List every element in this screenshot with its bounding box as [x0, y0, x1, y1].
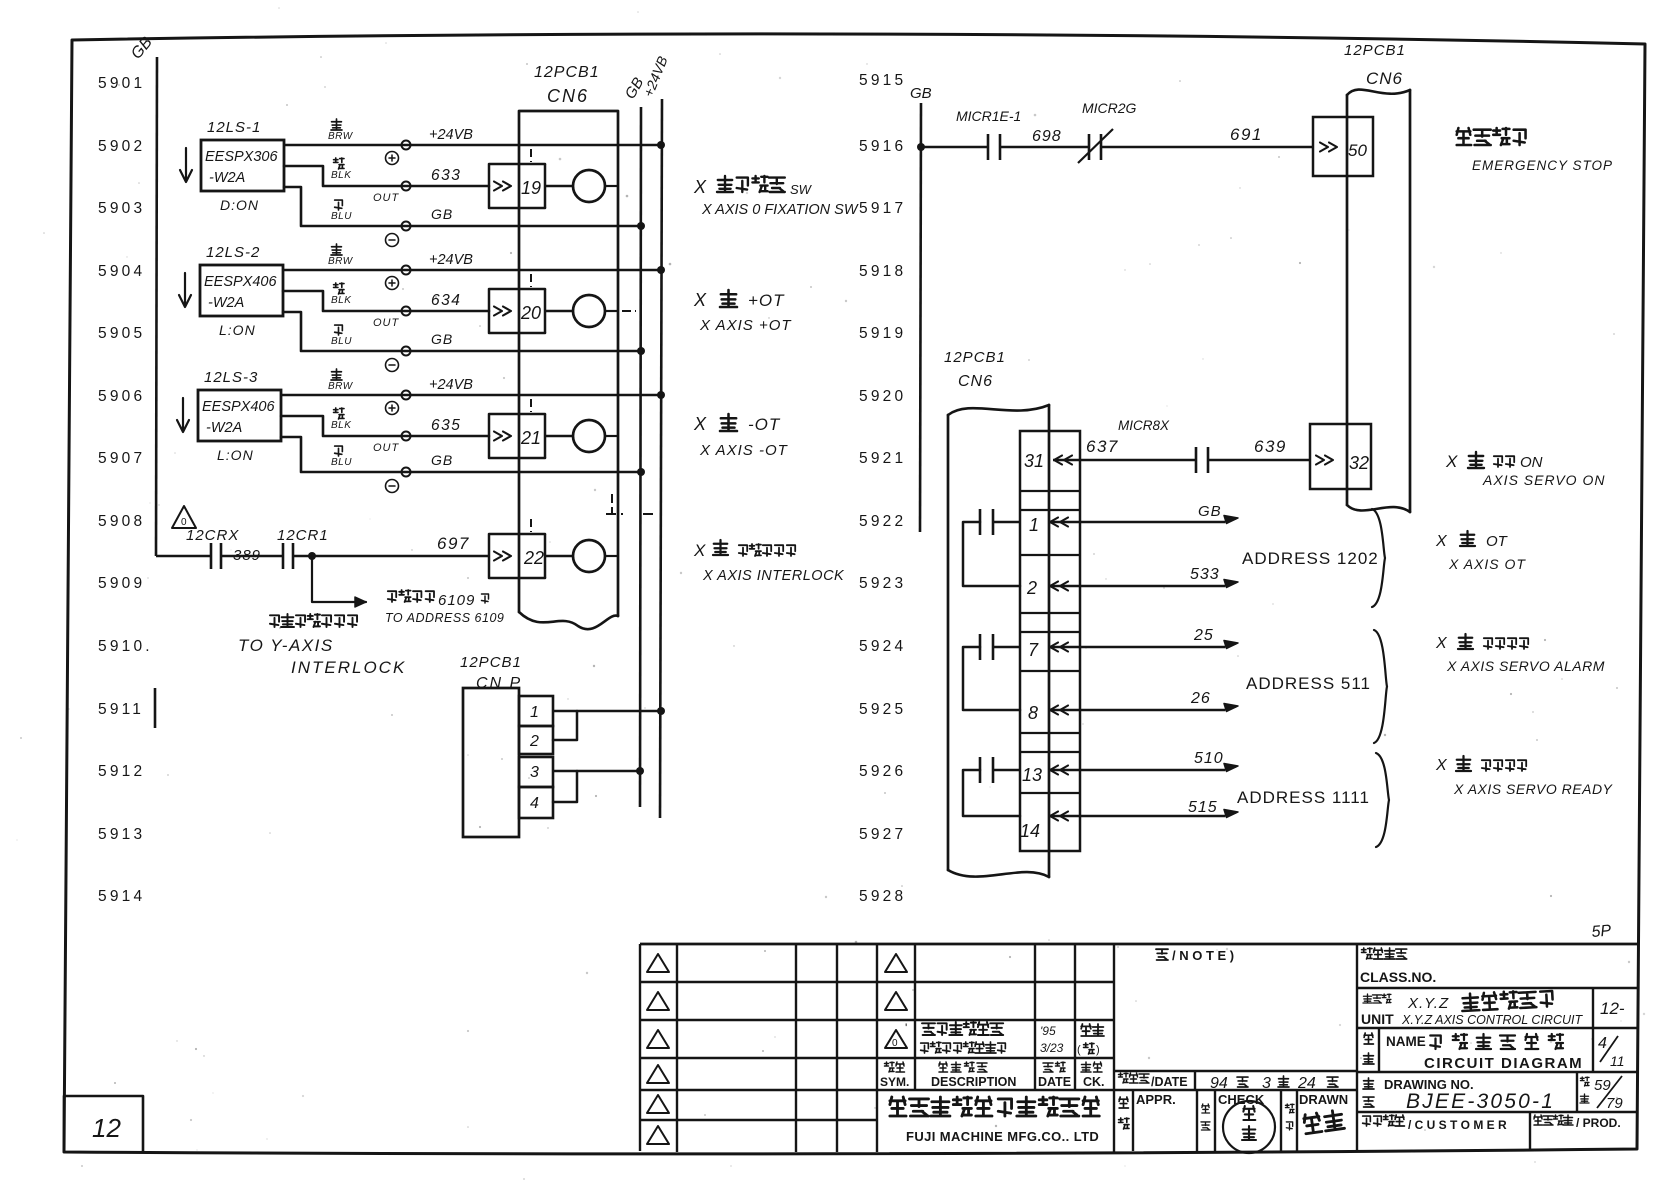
terminal circle [402, 391, 411, 400]
break squiggle bottom [948, 870, 1049, 877]
svg-text:1: 1 [1029, 515, 1039, 535]
svg-text:5911: 5911 [98, 701, 144, 718]
brace ADDRESS 1111 [1376, 753, 1389, 847]
svg-text:698: 698 [1032, 128, 1062, 145]
svg-text:3: 3 [1262, 1075, 1271, 1092]
svg-text:X AXIS 0 FIXATION SW: X AXIS 0 FIXATION SW [701, 202, 859, 218]
svg-text:5909: 5909 [98, 575, 145, 592]
svg-text:5916: 5916 [859, 138, 906, 155]
polarity mark plus [386, 277, 399, 290]
header DESCRIPTION [939, 1062, 948, 1072]
svg-text:5903: 5903 [98, 200, 145, 217]
svg-text:BJEE-3050-1: BJEE-3050-1 [1406, 1090, 1555, 1113]
svg-text:TO ADDRESS 6109: TO ADDRESS 6109 [385, 611, 504, 625]
junction dot on +24VB bus [657, 391, 665, 399]
svg-text:5908: 5908 [98, 513, 145, 530]
svg-text:X AXIS OT: X AXIS OT [1448, 556, 1526, 572]
svg-text:FUJI MACHINE MFG.CO.. LTD: FUJI MACHINE MFG.CO.. LTD [906, 1129, 1099, 1144]
right GB vertical bus wire [920, 103, 921, 532]
svg-text:CN P: CN P [476, 675, 522, 692]
wire 5916 from GB bus to contact MICR1E-1 [921, 146, 988, 149]
svg-text:12LS-3: 12LS-3 [204, 369, 258, 386]
left vertical bus wire (rows 5901-5908) [156, 57, 157, 556]
svg-text:13: 13 [1022, 765, 1042, 785]
svg-text:GB: GB [1198, 503, 1222, 520]
pin 22 box right edge [544, 534, 547, 578]
wire jog to next pin [963, 770, 1020, 816]
pin 3 of CNP [519, 757, 553, 787]
pin 22 bracket [489, 534, 545, 578]
wire pin 19 to lamp [545, 185, 573, 188]
svg-text:GB: GB [431, 452, 453, 468]
svg-text:32: 32 [1349, 453, 1369, 473]
wire 691 to pin 50 [1101, 146, 1313, 149]
svg-text:4: 4 [530, 795, 539, 812]
dash mark above pin [530, 149, 532, 162]
signal arrow into pin 50 [1320, 143, 1328, 152]
revision triangle [647, 1030, 669, 1048]
svg-text:5921: 5921 [859, 450, 906, 467]
svg-text:/ N O T E ): / N O T E ) [1172, 948, 1234, 963]
svg-text:'95: '95 [1040, 1024, 1056, 1038]
svg-text:12PCB1: 12PCB1 [460, 654, 522, 671]
svg-text:BLU: BLU [331, 336, 352, 347]
actuation arrow for 12LS-2 [179, 273, 191, 307]
wire 639 to pin 32 [1208, 459, 1310, 462]
svg-text:DESCRIPTION: DESCRIPTION [931, 1075, 1016, 1089]
check stamp circle Yamamoto [1223, 1101, 1275, 1153]
pin 32 box [1310, 424, 1371, 489]
revision triangle [647, 1095, 669, 1113]
connector 12PCB1 CN6 (right) body [1346, 95, 1349, 505]
svg-text:635: 635 [431, 417, 461, 434]
wire color label BRW (brown kanji) [331, 119, 342, 130]
dash after lamp [605, 310, 617, 312]
svg-text:5912: 5912 [98, 763, 145, 780]
limit switch 12LS-1 body EESPX306-W2A [201, 140, 284, 191]
wire contact to pin [993, 521, 1020, 524]
svg-text:X AXIS -OT: X AXIS -OT [699, 442, 789, 459]
indicator lamp at pin 21 [573, 420, 605, 452]
svg-text:634: 634 [431, 292, 461, 309]
wire GB from CN6 pin [1050, 518, 1058, 527]
polarity mark minus [386, 480, 399, 493]
svg-text:31: 31 [1024, 451, 1044, 471]
note emergency stop (kanji) [1457, 128, 1471, 145]
GB vertical bus wire [640, 107, 641, 807]
wire OUT 633 from 12LS-1 (BLK) [284, 166, 489, 186]
wire +24VB from 12LS-1 (BRW) [284, 144, 661, 147]
signal arrow into pin 32 [1316, 456, 1324, 465]
revision table B columns [876, 944, 878, 1152]
svg-text:BLU: BLU [331, 211, 352, 222]
revision triangle (table B) [885, 954, 907, 972]
revision triangle 0' entry [885, 1030, 907, 1048]
break squiggle top [948, 405, 1049, 415]
revision triangle [647, 1126, 669, 1144]
production number row [1534, 1115, 1543, 1125]
svg-text:X: X [1445, 452, 1458, 471]
svg-text:SW: SW [790, 182, 813, 197]
svg-text:/DATE: /DATE [1151, 1075, 1188, 1089]
dash after lamp [605, 185, 617, 187]
svg-text:/ PROD.: / PROD. [1576, 1116, 1621, 1130]
wire GB from 12LS-1 (BLU) [284, 187, 641, 226]
signal arrow into pin 19 [494, 182, 502, 191]
svg-text:+24VB: +24VB [429, 127, 473, 143]
revision triangle (table B) [885, 992, 907, 1010]
wire +24VB from 12LS-3 (BRW) [281, 394, 661, 397]
pin 50 box [1313, 117, 1373, 176]
svg-text:5920: 5920 [859, 388, 906, 405]
wire 697 to pin 22 [293, 555, 489, 558]
sheet column [1576, 1072, 1578, 1112]
svg-text:691: 691 [1230, 125, 1263, 144]
company name Fuji Machine (kanji) [890, 1097, 906, 1116]
svg-text:X: X [1435, 533, 1448, 550]
capacitor-style contact on CN6 pin [979, 634, 982, 660]
wire 510 from CN6 pin [1050, 766, 1058, 775]
signal arrow into pin 22 [494, 552, 502, 561]
svg-text:+OT: +OT [748, 291, 785, 310]
pin 21 bracket [489, 414, 545, 458]
revision table A [639, 944, 641, 1151]
connector body break squiggle bottom [519, 612, 618, 629]
connector 12PCB1 CN6 (left) body [519, 111, 618, 616]
terminal circle [402, 222, 411, 231]
pin 19 bracket [489, 164, 545, 208]
svg-text:BRW: BRW [328, 256, 354, 267]
signal arrow into pin 21 [494, 432, 502, 441]
svg-text:12LS-1: 12LS-1 [207, 119, 261, 136]
name column (kanji) [1364, 1033, 1373, 1044]
wire 26 from CN6 pin [1050, 706, 1058, 715]
svg-text:5925: 5925 [859, 701, 906, 718]
svg-text:X: X [1435, 757, 1448, 774]
junction dot row 5916 [917, 143, 925, 151]
svg-text:11: 11 [1610, 1053, 1625, 1069]
class code 12- [1592, 988, 1594, 1028]
revision triangle [647, 992, 669, 1010]
wire 533 from CN6 pin [1050, 582, 1058, 591]
svg-text:OUT: OUT [373, 192, 400, 204]
svg-text:0: 0 [892, 1038, 898, 1049]
svg-text:20: 20 [520, 303, 541, 323]
wire color label BLK (black kanji) [334, 408, 344, 419]
dash mark above pin [530, 399, 532, 412]
indicator lamp at pin 19 [573, 170, 605, 202]
wire CNP pin4 jog [553, 771, 577, 802]
signal arrows into pin 31 [1054, 456, 1062, 465]
terminal circle [402, 182, 411, 191]
svg-text:639: 639 [1254, 437, 1287, 456]
revision triangle [647, 1065, 669, 1083]
junction dot on +24VB bus [657, 141, 665, 149]
wire CNP pin2 jog [553, 711, 577, 740]
header DATE [1043, 1063, 1053, 1072]
wire 515 from CN6 pin [1050, 812, 1058, 821]
wire GB from 12LS-2 (BLU) [283, 312, 641, 351]
wire color label BRW (brown kanji) [331, 244, 342, 255]
svg-text:12: 12 [92, 1113, 121, 1143]
svg-text:EESPX406: EESPX406 [202, 399, 275, 415]
svg-text:8: 8 [1028, 703, 1038, 723]
pin strip of CN6 (lower) [1020, 431, 1080, 851]
svg-text:2: 2 [529, 733, 539, 750]
dash-dot right of lamp 20 [622, 310, 636, 312]
actuation arrow for 12LS-3 [177, 398, 189, 432]
wire contact to pin [993, 646, 1020, 649]
header CK [1081, 1062, 1091, 1072]
indicator lamp at pin 20 [573, 295, 605, 327]
wire 698 [1000, 146, 1089, 149]
svg-text:5904: 5904 [98, 263, 145, 280]
wire CNP pin1 to +24VB bus [553, 710, 661, 713]
pin 20 bracket [489, 289, 545, 333]
break squiggle bottom [1347, 505, 1410, 512]
wire color label BLK (black kanji) [334, 283, 344, 294]
svg-text:/ C U S T O M E R: / C U S T O M E R [1408, 1118, 1507, 1132]
connector 12PCB1 CNP body [463, 688, 519, 837]
pin 4 of CNP [519, 787, 553, 818]
drawing number column (kanji) [1363, 1078, 1374, 1089]
svg-text:-W2A: -W2A [208, 295, 244, 311]
svg-text:ON: ON [1520, 454, 1543, 471]
wire pin 20 to lamp [545, 310, 573, 313]
svg-text:X AXIS INTERLOCK: X AXIS INTERLOCK [702, 568, 845, 584]
svg-text:5923: 5923 [859, 575, 906, 592]
svg-text:X: X [693, 177, 707, 197]
svg-text:5917: 5917 [859, 200, 906, 217]
terminal circle [402, 432, 411, 441]
svg-text:5926: 5926 [859, 763, 906, 780]
drawn by Esaka (handwritten kanji) [1303, 1110, 1344, 1134]
svg-text:14: 14 [1020, 821, 1040, 841]
page number 4/11 [1592, 1028, 1594, 1072]
svg-text:5924: 5924 [859, 638, 906, 655]
wire 25 from CN6 pin [1050, 643, 1058, 652]
svg-text:5905: 5905 [98, 325, 145, 342]
svg-text:5901: 5901 [98, 75, 145, 92]
svg-text:5928: 5928 [859, 888, 906, 905]
wire pin 21 to lamp [545, 435, 573, 438]
wire color label BRW (brown kanji) [331, 369, 342, 380]
svg-text:(: ( [1077, 1044, 1081, 1056]
terminal circle [402, 468, 411, 477]
svg-text:-W2A: -W2A [209, 170, 245, 186]
dash after lamp [605, 555, 617, 557]
break squiggle top [1347, 90, 1410, 95]
svg-text:5910.: 5910. [98, 638, 153, 655]
wire color label BLU (blue kanji) [335, 446, 343, 456]
limit switch 12LS-2 body EESPX406-W2A [200, 265, 283, 316]
svg-text:CHECK: CHECK [1218, 1092, 1265, 1107]
relay contact 12CRX [210, 543, 213, 569]
svg-text:+24VB: +24VB [429, 252, 473, 268]
arrowhead [1224, 704, 1238, 712]
dash mark above pin [530, 274, 532, 287]
date row / approval row lines [1114, 1070, 1357, 1072]
svg-text:OT: OT [1486, 533, 1509, 550]
unit name row (kanji) [1363, 994, 1372, 1003]
wire from left bus to contact 12CRX [156, 555, 211, 558]
approval column (kanji) [1119, 1097, 1128, 1108]
arrowhead [1224, 764, 1238, 772]
svg-text:5P: 5P [1591, 922, 1612, 941]
svg-text:12CRX: 12CRX [186, 527, 239, 544]
arrowhead [1224, 580, 1238, 588]
polarity mark minus [386, 359, 399, 372]
svg-text:CN6: CN6 [547, 86, 589, 106]
svg-text:BRW: BRW [328, 381, 354, 392]
drawn column (kanji) [1285, 1104, 1294, 1113]
svg-text:GB: GB [431, 206, 453, 222]
svg-text:APPR.: APPR. [1136, 1092, 1176, 1107]
customer row [1363, 1116, 1371, 1126]
pin 21 box right edge [544, 414, 547, 458]
svg-text:NAME: NAME [1386, 1034, 1426, 1049]
wire 637 from pin 31 [1053, 459, 1196, 462]
svg-text:2: 2 [1026, 578, 1037, 598]
note Y-axis interlock (kana) [270, 615, 279, 627]
wire CNP pin3 to GB bus [553, 770, 640, 773]
svg-text:26: 26 [1190, 690, 1211, 707]
svg-text:5927: 5927 [859, 826, 906, 843]
svg-text:533: 533 [1190, 566, 1220, 583]
svg-text:X AXIS +OT: X AXIS +OT [699, 317, 792, 334]
svg-text:GB: GB [431, 331, 453, 347]
date row label [1119, 1073, 1129, 1083]
svg-text:22: 22 [523, 548, 544, 568]
svg-text:633: 633 [431, 167, 461, 184]
note box label [1156, 949, 1168, 960]
svg-text:3: 3 [530, 764, 539, 781]
wire 389 between contacts [221, 555, 283, 558]
svg-text:X: X [1435, 635, 1448, 652]
svg-text:697: 697 [437, 534, 470, 553]
svg-text:TO Y-AXIS: TO Y-AXIS [238, 636, 334, 655]
svg-text:CLASS.NO.: CLASS.NO. [1360, 969, 1436, 985]
pin 19 box right edge [544, 164, 547, 208]
svg-text:BLK: BLK [331, 295, 352, 306]
connector 12PCB1 CN6 (lower) body [947, 415, 950, 870]
svg-text:-OT: -OT [748, 415, 781, 434]
svg-text:5913: 5913 [98, 826, 145, 843]
pin 20 box right edge [544, 289, 547, 333]
revision warning triangle [172, 506, 196, 528]
wire jog to next pin [963, 647, 1020, 710]
svg-text:X AXIS SERVO READY: X AXIS SERVO READY [1453, 781, 1614, 797]
header SYM [885, 1062, 895, 1072]
pin 2 of CNP [519, 726, 553, 754]
terminal circle [402, 141, 411, 150]
relay contact 12CR1 [282, 543, 285, 569]
svg-text:94: 94 [1210, 1075, 1228, 1092]
svg-text:5907: 5907 [98, 450, 145, 467]
title block top edge [640, 943, 1637, 946]
svg-text:L:ON: L:ON [219, 322, 256, 338]
svg-text:CN6: CN6 [1366, 69, 1403, 88]
dash after lamp [605, 435, 617, 437]
svg-text:ADDRESS 1202: ADDRESS 1202 [1242, 549, 1379, 568]
limit switch 12LS-3 body EESPX406-W2A [198, 390, 281, 441]
svg-text:21: 21 [520, 428, 541, 448]
svg-text:X.Y.Z: X.Y.Z [1407, 995, 1449, 1012]
svg-text:D:ON: D:ON [220, 197, 259, 213]
svg-text:510: 510 [1194, 750, 1224, 767]
arrowhead [1224, 516, 1238, 524]
dash-dot marks near row 5908 [606, 513, 623, 515]
svg-text:1: 1 [530, 704, 539, 721]
svg-text:UNIT: UNIT [1361, 1011, 1394, 1027]
svg-text:CK.: CK. [1083, 1075, 1105, 1089]
svg-text:515: 515 [1188, 799, 1218, 816]
svg-text:19: 19 [521, 178, 541, 198]
svg-text:79: 79 [1606, 1095, 1623, 1112]
svg-text:12PCB1: 12PCB1 [944, 349, 1006, 366]
svg-text:BLK: BLK [331, 170, 352, 181]
wire contact to pin [993, 769, 1020, 772]
svg-text:X: X [693, 414, 707, 434]
indicator lamp at pin 22 [573, 540, 605, 572]
svg-text:12CR1: 12CR1 [277, 527, 329, 544]
svg-text:OUT: OUT [373, 442, 400, 454]
pin 1 of CNP [519, 696, 553, 726]
svg-text:BRW: BRW [328, 131, 354, 142]
note address 6109 (kana) [388, 591, 396, 602]
revision description text (kanji) [922, 1023, 935, 1035]
relay contact MICR8X [1195, 447, 1198, 473]
svg-text:637: 637 [1086, 437, 1119, 456]
arrowhead [1224, 641, 1238, 649]
capacitor-style contact on CN6 pin [979, 509, 982, 535]
svg-text:3/23: 3/23 [1040, 1041, 1064, 1055]
left bus stub near 5911 [154, 688, 157, 728]
svg-text:): ) [1096, 1044, 1100, 1056]
branch wire to address 6109 [312, 556, 366, 602]
relay contact MICR1E-1 [987, 134, 990, 160]
svg-text:50: 50 [1348, 141, 1367, 160]
svg-text:6109: 6109 [438, 592, 475, 609]
svg-text:59: 59 [1594, 1077, 1611, 1094]
svg-text:-W2A: -W2A [206, 420, 242, 436]
svg-text:EMERGENCY STOP: EMERGENCY STOP [1472, 158, 1613, 173]
svg-text:X: X [693, 290, 707, 310]
terminal circle [402, 347, 411, 356]
check column (kanji) [1202, 1104, 1210, 1113]
svg-text:12PCB1: 12PCB1 [534, 64, 600, 81]
capacitor-style contact on CN6 pin [979, 757, 982, 783]
svg-text:L:ON: L:ON [217, 447, 254, 463]
svg-text:BLK: BLK [331, 420, 352, 431]
svg-text:SYM.: SYM. [880, 1075, 909, 1089]
brace ADDRESS 511 [1374, 630, 1387, 743]
svg-text:DATE: DATE [1038, 1075, 1071, 1089]
svg-text:OUT: OUT [373, 317, 400, 329]
wire color label BLU (blue kanji) [335, 200, 343, 210]
brace ADDRESS 1202 [1372, 509, 1385, 607]
svg-text:5914: 5914 [98, 888, 145, 905]
wire jog to next pin [963, 522, 1020, 586]
class number label (kanji) [1362, 948, 1372, 959]
arrowhead [1224, 810, 1238, 818]
svg-text:AXIS SERVO ON: AXIS SERVO ON [1482, 472, 1605, 488]
svg-text:7: 7 [1028, 640, 1039, 660]
revision by (kanji) [1081, 1024, 1091, 1036]
svg-text:MICR1E-1: MICR1E-1 [956, 108, 1021, 124]
svg-text:5915: 5915 [859, 72, 906, 89]
svg-text:EESPX406: EESPX406 [204, 274, 277, 290]
